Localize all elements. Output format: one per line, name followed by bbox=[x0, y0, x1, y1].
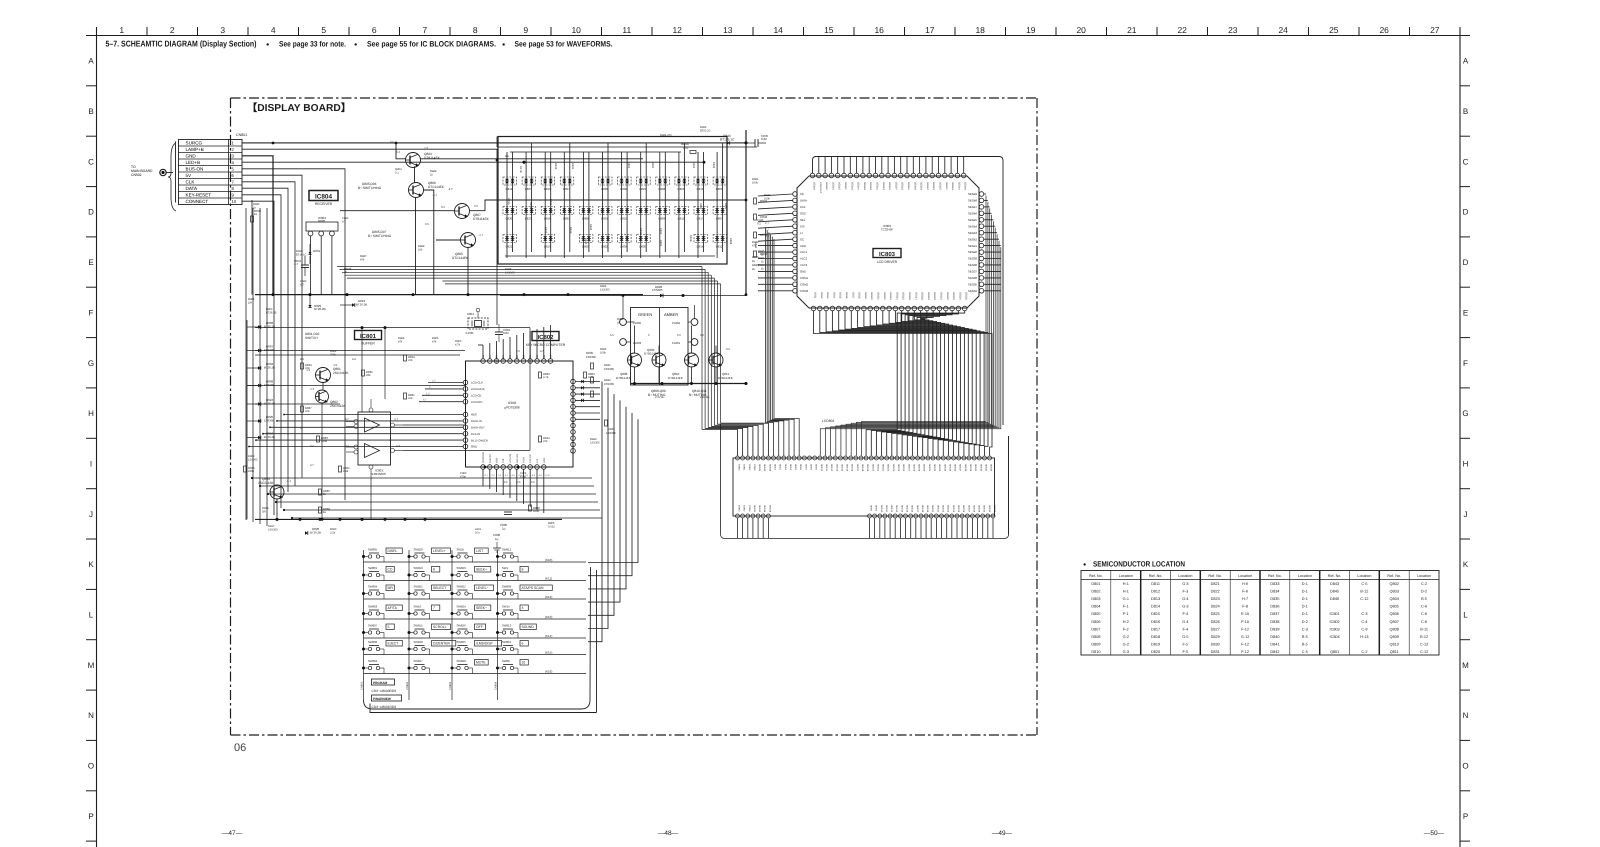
B+ switching annotation bbox=[358, 182, 382, 190]
svg-text:C-4: C-4 bbox=[1361, 620, 1367, 624]
svg-text:Q809: Q809 bbox=[1390, 635, 1399, 639]
svg-text:D802: D802 bbox=[1091, 590, 1100, 594]
svg-text:4.7: 4.7 bbox=[342, 221, 346, 224]
svg-text:SEG23: SEG23 bbox=[952, 292, 955, 300]
svg-text:4.3: 4.3 bbox=[310, 387, 315, 391]
svg-text:P: P bbox=[1463, 812, 1468, 821]
svg-text:SEG35: SEG35 bbox=[948, 464, 951, 472]
svg-text:SEG3: SEG3 bbox=[826, 292, 829, 299]
svg-text:5.1: 5.1 bbox=[395, 172, 399, 175]
svg-text:DTB114EK: DTB114EK bbox=[616, 376, 631, 380]
svg-text:SEG45: SEG45 bbox=[763, 505, 766, 513]
svg-text:SEG41: SEG41 bbox=[758, 464, 761, 472]
svg-text:SEG11: SEG11 bbox=[877, 292, 880, 300]
svg-text:SEG23: SEG23 bbox=[947, 505, 950, 513]
svg-text:OFF: OFF bbox=[476, 625, 483, 629]
switch SW802 bbox=[364, 659, 384, 670]
svg-text:SEG22: SEG22 bbox=[946, 292, 949, 300]
svg-text:Q810: Q810 bbox=[1390, 642, 1399, 646]
svg-text:【DISPLAY BOARD】: 【DISPLAY BOARD】 bbox=[247, 102, 351, 114]
svg-text:D815: D815 bbox=[1151, 612, 1160, 616]
svg-text:3.7: 3.7 bbox=[310, 464, 314, 467]
svg-text:G-2: G-2 bbox=[1123, 642, 1129, 646]
IC802 right diode column bbox=[576, 351, 617, 435]
svg-text:SW822: SW822 bbox=[457, 585, 467, 589]
svg-text:SW812: SW812 bbox=[502, 548, 512, 552]
svg-text:F-5: F-5 bbox=[1183, 650, 1189, 654]
svg-text:R808: R808 bbox=[729, 238, 732, 245]
svg-text:0.5: 0.5 bbox=[390, 141, 394, 144]
lamp wiring bbox=[623, 296, 716, 384]
svg-text:IC804: IC804 bbox=[1330, 635, 1340, 639]
svg-text:SEEK−: SEEK− bbox=[476, 606, 487, 610]
svg-text:S/S: S/S bbox=[800, 224, 805, 228]
key scan row wire K13 bbox=[364, 614, 587, 620]
svg-text:SEG16: SEG16 bbox=[911, 505, 914, 513]
svg-text:C-6: C-6 bbox=[1421, 612, 1427, 616]
IC803 bottom pins bbox=[811, 306, 967, 311]
svg-text:●: ● bbox=[266, 42, 269, 48]
svg-text:SEG14: SEG14 bbox=[900, 505, 903, 513]
IC802 top pins bbox=[481, 354, 553, 363]
svg-text:D: D bbox=[1463, 208, 1469, 217]
svg-text:SW16: SW16 bbox=[414, 605, 422, 609]
svg-text:SEG32: SEG32 bbox=[993, 505, 996, 513]
svg-text:VSS: VSS bbox=[516, 355, 519, 360]
IC803 right pin stubs bbox=[984, 194, 1001, 291]
svg-text:D805: D805 bbox=[716, 187, 723, 191]
svg-text:SEG4D: SEG4D bbox=[882, 182, 885, 190]
svg-text:D827: D827 bbox=[563, 187, 570, 191]
svg-text:J: J bbox=[89, 510, 93, 519]
svg-text:—49—: —49— bbox=[992, 830, 1013, 837]
svg-text:D845: D845 bbox=[1330, 590, 1339, 594]
svg-text:SEG35: SEG35 bbox=[968, 283, 977, 287]
svg-text:(K12): (K12) bbox=[545, 595, 552, 599]
svg-text:SEG19: SEG19 bbox=[927, 292, 930, 300]
svg-text:C: C bbox=[88, 157, 94, 166]
switch SW825 (ILMS/DISP) bbox=[453, 640, 502, 651]
svg-text:SEG41: SEG41 bbox=[968, 244, 977, 248]
svg-text:R81B: R81B bbox=[689, 235, 692, 242]
svg-text:D841: D841 bbox=[1270, 642, 1279, 646]
svg-text:D813: D813 bbox=[1151, 597, 1160, 601]
svg-text:SEG4H: SEG4H bbox=[957, 182, 960, 190]
svg-text:10u: 10u bbox=[475, 532, 480, 535]
svg-text:R816: R816 bbox=[544, 227, 547, 234]
svg-text:D824: D824 bbox=[1211, 605, 1220, 609]
svg-text:PRGRAM: PRGRAM bbox=[373, 681, 388, 685]
switch SW823 (SEEK+) bbox=[453, 566, 491, 577]
svg-text:R813: R813 bbox=[549, 199, 552, 206]
svg-text:CLK-IN: CLK-IN bbox=[471, 432, 480, 436]
svg-text:2SC2412K: 2SC2412K bbox=[330, 404, 346, 408]
LED pair D807 row 1 bbox=[522, 177, 536, 191]
display board boundary bbox=[231, 98, 1038, 735]
svg-text:CN802: CN802 bbox=[406, 681, 409, 690]
svg-text:R802: R802 bbox=[651, 162, 654, 169]
transistor Q810 bbox=[668, 353, 699, 380]
svg-text:47k: 47k bbox=[432, 341, 437, 344]
svg-text:SEG20: SEG20 bbox=[931, 505, 934, 513]
svg-text:2: 2 bbox=[170, 25, 175, 35]
svg-text:D816: D816 bbox=[1151, 620, 1160, 624]
svg-text:L: L bbox=[1463, 611, 1468, 620]
svg-text:1SS305: 1SS305 bbox=[604, 382, 614, 386]
svg-text:SEG34: SEG34 bbox=[968, 289, 977, 293]
svg-text:2SC2412K: 2SC2412K bbox=[333, 371, 349, 375]
svg-text:SEEK+: SEEK+ bbox=[476, 568, 487, 572]
D844 diode bbox=[720, 134, 735, 145]
svg-text:10: 10 bbox=[522, 661, 526, 665]
svg-text:100k: 100k bbox=[600, 352, 606, 355]
svg-text:B-5: B-5 bbox=[1302, 642, 1308, 646]
svg-text:COLOR: COLOR bbox=[529, 454, 532, 463]
IC803 bottom pin labels bbox=[814, 292, 968, 300]
svg-text:SEG4E: SEG4E bbox=[888, 182, 891, 190]
svg-text:47k: 47k bbox=[543, 439, 548, 443]
title text bbox=[106, 39, 613, 49]
svg-text:Ref. No.: Ref. No. bbox=[1387, 574, 1401, 578]
svg-text:SEG7: SEG7 bbox=[804, 464, 807, 471]
svg-text:06: 06 bbox=[234, 742, 246, 754]
svg-text:G-3: G-3 bbox=[1123, 650, 1129, 654]
svg-text:Q807: Q807 bbox=[1390, 620, 1399, 624]
svg-text:LCD-CE: LCD-CE bbox=[471, 394, 482, 398]
svg-text:D830: D830 bbox=[639, 245, 646, 249]
LED pair D808 row 1 bbox=[656, 177, 670, 191]
svg-text:SEG19: SEG19 bbox=[866, 464, 869, 472]
svg-text:SEG4G: SEG4G bbox=[850, 182, 853, 190]
svg-text:CLK: CLK bbox=[800, 205, 806, 209]
svg-text:-0.1: -0.1 bbox=[503, 481, 508, 484]
svg-text:1SS305: 1SS305 bbox=[604, 367, 614, 371]
svg-text:SEG12: SEG12 bbox=[883, 292, 886, 300]
svg-text:LEVEL+: LEVEL+ bbox=[433, 549, 446, 553]
svg-text:D834: D834 bbox=[1270, 590, 1279, 594]
svg-text:D831: D831 bbox=[1211, 650, 1220, 654]
svg-text:SEG21: SEG21 bbox=[940, 292, 943, 300]
svg-text:SEG2: SEG2 bbox=[820, 292, 823, 299]
svg-text:E: E bbox=[88, 258, 93, 267]
svg-text:H-1: H-1 bbox=[1123, 582, 1129, 586]
svg-text:SEG37: SEG37 bbox=[968, 270, 977, 274]
svg-text:SEG10: SEG10 bbox=[870, 292, 873, 300]
svg-text:SEG4E: SEG4E bbox=[838, 182, 841, 190]
svg-text:B+ SWITCHING: B+ SWITCHING bbox=[358, 186, 382, 190]
svg-text:0.5: 0.5 bbox=[425, 223, 429, 226]
svg-text:GND: GND bbox=[543, 457, 546, 463]
svg-text:D831: D831 bbox=[563, 217, 570, 221]
transistor Q809 bbox=[644, 348, 666, 367]
svg-text:DATA-OUT: DATA-OUT bbox=[471, 426, 485, 430]
switch SW821 (SELECT) bbox=[410, 585, 451, 596]
svg-text:Q804: Q804 bbox=[1390, 597, 1399, 601]
svg-text:SEL: SEL bbox=[800, 218, 806, 222]
IC803 top pins bbox=[810, 173, 966, 178]
svg-text:SEG45: SEG45 bbox=[768, 464, 771, 472]
svg-text:B: B bbox=[1463, 107, 1468, 116]
svg-text:SEG24: SEG24 bbox=[958, 292, 961, 300]
svg-text:4.7k: 4.7k bbox=[455, 344, 461, 347]
left section wires bbox=[247, 326, 562, 521]
svg-text:47k: 47k bbox=[752, 245, 757, 248]
svg-text:D819: D819 bbox=[1151, 642, 1160, 646]
svg-text:MR: MR bbox=[388, 586, 394, 590]
svg-text:D806: D806 bbox=[1091, 620, 1100, 624]
svg-text:4.7: 4.7 bbox=[394, 417, 399, 421]
svg-text:5–7. SCHEAMTIC DIAGRAM (Displa: 5–7. SCHEAMTIC DIAGRAM (Display Section) bbox=[106, 39, 257, 49]
key scan row wire K12 bbox=[364, 594, 587, 600]
svg-text:SW802: SW802 bbox=[368, 659, 378, 663]
svg-text:Ref. No.: Ref. No. bbox=[1149, 574, 1163, 578]
svg-text:SEG7: SEG7 bbox=[851, 292, 854, 299]
svg-text:SEG4: SEG4 bbox=[832, 292, 835, 299]
svg-text:D818: D818 bbox=[544, 217, 551, 221]
svg-text:SEG4E: SEG4E bbox=[939, 182, 942, 190]
switch matrix column verticals bbox=[361, 550, 500, 700]
svg-text:1SS305: 1SS305 bbox=[268, 529, 278, 532]
svg-text:See page 53 for WAVEFORMS.: See page 53 for WAVEFORMS. bbox=[515, 40, 613, 49]
svg-text:SEG40: SEG40 bbox=[968, 250, 977, 254]
to main board CN502 annotation bbox=[131, 143, 176, 211]
svg-text:SW826: SW826 bbox=[457, 624, 467, 628]
svg-text:-0.10: -0.10 bbox=[545, 474, 551, 477]
svg-text:D808: D808 bbox=[582, 217, 589, 221]
switch SW819 (8) bbox=[410, 566, 440, 577]
svg-text:D804: D804 bbox=[620, 187, 627, 191]
svg-text:SCROLL: SCROLL bbox=[433, 625, 447, 629]
svg-text:SEG15: SEG15 bbox=[906, 505, 909, 513]
svg-text:I: I bbox=[90, 460, 92, 469]
IC802 right-side drops bbox=[588, 382, 638, 642]
svg-text:Q805: Q805 bbox=[1390, 605, 1399, 609]
svg-text:ILMS/DISP: ILMS/DISP bbox=[476, 642, 494, 646]
svg-text:F-4: F-4 bbox=[1183, 612, 1189, 616]
svg-text:SEG8: SEG8 bbox=[810, 464, 813, 471]
LED pair D830 row 2 bbox=[503, 207, 517, 221]
svg-text:Ref. No.: Ref. No. bbox=[1268, 574, 1282, 578]
svg-text:SW825: SW825 bbox=[457, 640, 467, 644]
svg-text:SEG2: SEG2 bbox=[779, 464, 782, 471]
svg-text:SOUND: SOUND bbox=[522, 625, 535, 629]
svg-text:BT26.2B: BT26.2B bbox=[310, 531, 321, 535]
svg-text:2.9V B+: 2.9V B+ bbox=[700, 396, 710, 399]
svg-text:SW819: SW819 bbox=[414, 566, 424, 570]
svg-text:1SS305: 1SS305 bbox=[264, 419, 274, 423]
svg-text:SEG14: SEG14 bbox=[895, 292, 898, 300]
svg-text:C-9: C-9 bbox=[1361, 627, 1367, 631]
svg-text:SEG22: SEG22 bbox=[942, 505, 945, 513]
svg-text:SELECT: SELECT bbox=[433, 586, 446, 590]
svg-text:23: 23 bbox=[1228, 25, 1238, 35]
LED pair D813 row 3 bbox=[541, 235, 555, 249]
svg-text:D804: D804 bbox=[658, 217, 665, 221]
svg-text:—48—: —48— bbox=[658, 830, 679, 837]
svg-text:C-6: C-6 bbox=[1421, 620, 1427, 624]
wires around Q804-Q807 bbox=[340, 142, 746, 295]
svg-text:KEY-RESET: KEY-RESET bbox=[186, 193, 212, 198]
svg-text:Q808: Q808 bbox=[1390, 627, 1399, 631]
svg-text:COM2: COM2 bbox=[743, 505, 746, 512]
LED pair D818 row 2 bbox=[541, 207, 555, 221]
svg-text:SEG43: SEG43 bbox=[763, 464, 766, 472]
svg-text:SEG4A: SEG4A bbox=[913, 182, 916, 190]
svg-text:9: 9 bbox=[522, 568, 524, 572]
svg-text:●: ● bbox=[1083, 562, 1086, 568]
svg-text:CN804: CN804 bbox=[495, 681, 498, 690]
switch SW25 (LIST) bbox=[453, 548, 489, 559]
svg-text:27: 27 bbox=[1430, 25, 1440, 35]
svg-text:-4.7: -4.7 bbox=[448, 188, 453, 191]
svg-text:C: C bbox=[1463, 157, 1469, 166]
svg-text:SEG09: SEG09 bbox=[768, 505, 771, 513]
svg-text:SEG42: SEG42 bbox=[968, 237, 977, 241]
svg-text:L: L bbox=[89, 611, 94, 620]
switch SW813 (SOUND) bbox=[498, 624, 536, 635]
svg-text:D809: D809 bbox=[1091, 642, 1100, 646]
svg-text:K: K bbox=[1463, 560, 1469, 569]
svg-text:CONNECT: CONNECT bbox=[186, 199, 209, 204]
svg-text:F-10: F-10 bbox=[1241, 620, 1249, 624]
IC803 bottom fan wires bbox=[814, 311, 993, 456]
LED matrix resistor labels bbox=[507, 162, 757, 249]
transistor Q811 bbox=[709, 353, 733, 380]
svg-text:7: 7 bbox=[433, 606, 435, 610]
svg-text:SEG37: SEG37 bbox=[959, 464, 962, 472]
svg-text:B-12: B-12 bbox=[1360, 590, 1368, 594]
switch SW804 (MR) bbox=[364, 585, 394, 596]
svg-text:IC803: IC803 bbox=[879, 251, 896, 258]
svg-text:LCD-INH: LCD-INH bbox=[471, 400, 482, 404]
svg-text:SW806: SW806 bbox=[368, 640, 378, 644]
svg-text:100k: 100k bbox=[752, 182, 758, 185]
svg-text:5/6: 5/6 bbox=[262, 511, 266, 514]
svg-text:SEG45: SEG45 bbox=[968, 218, 977, 222]
svg-text:IC802: IC802 bbox=[1330, 620, 1340, 624]
svg-text:1SS305: 1SS305 bbox=[586, 355, 596, 359]
svg-text:SEG4C: SEG4C bbox=[926, 182, 929, 190]
svg-text:0.022: 0.022 bbox=[548, 526, 555, 529]
svg-text:4.19M: 4.19M bbox=[465, 331, 474, 335]
LCD801 bottom pins left group bbox=[736, 505, 772, 518]
svg-text:MONITOR: MONITOR bbox=[482, 451, 485, 463]
transistor Q803 bbox=[258, 477, 292, 499]
svg-text:SEG4: SEG4 bbox=[789, 464, 792, 471]
svg-text:SEG4F: SEG4F bbox=[945, 182, 948, 190]
LCD801 top pins bbox=[736, 456, 992, 460]
svg-text:R81A: R81A bbox=[507, 198, 510, 205]
IC802 left pins bbox=[463, 380, 488, 449]
svg-text:—50—: —50— bbox=[1424, 830, 1445, 837]
svg-text:R811: R811 bbox=[724, 203, 727, 210]
svg-text:P01: P01 bbox=[529, 354, 532, 359]
svg-text:COM0: COM0 bbox=[738, 464, 741, 471]
svg-text:SEG28: SEG28 bbox=[912, 464, 915, 472]
svg-text:BT26.2B: BT26.2B bbox=[264, 435, 275, 439]
svg-text:KEY-ON: KEY-ON bbox=[516, 454, 519, 463]
svg-text:5: 5 bbox=[321, 25, 326, 35]
svg-text:A: A bbox=[88, 57, 94, 66]
svg-text:●: ● bbox=[354, 42, 357, 48]
svg-text:SEG11: SEG11 bbox=[825, 464, 828, 472]
transistor Q807 bbox=[441, 204, 490, 222]
C801 capacitor bbox=[495, 324, 511, 342]
svg-text:PWARNIEW: PWARNIEW bbox=[373, 697, 391, 701]
svg-text:Location: Location bbox=[1238, 574, 1252, 578]
svg-text:SEG33: SEG33 bbox=[938, 464, 941, 472]
svg-text:LCD-DATA: LCD-DATA bbox=[471, 387, 485, 391]
svg-text:PL804: PL804 bbox=[672, 321, 681, 325]
page number 48 bbox=[658, 830, 679, 837]
svg-text:1SS305: 1SS305 bbox=[600, 289, 610, 292]
svg-text:D805: D805 bbox=[582, 245, 589, 249]
LCD801 top-left fan wires bbox=[702, 228, 799, 456]
svg-text:B-11: B-11 bbox=[1420, 627, 1428, 631]
LED pair D815 row 1 bbox=[503, 177, 517, 191]
svg-text:N: N bbox=[1463, 711, 1469, 720]
svg-text:5.5: 5.5 bbox=[610, 334, 614, 337]
svg-text:F-1: F-1 bbox=[1123, 612, 1129, 616]
svg-text:SEG36: SEG36 bbox=[968, 276, 977, 280]
svg-text:D826: D826 bbox=[1211, 620, 1220, 624]
svg-text:SEG5: SEG5 bbox=[794, 464, 797, 471]
svg-text:F-2: F-2 bbox=[1123, 627, 1129, 631]
svg-text:F: F bbox=[89, 308, 94, 317]
svg-text:F-12: F-12 bbox=[1241, 650, 1249, 654]
svg-text:G-3: G-3 bbox=[1182, 582, 1188, 586]
svg-text:47k: 47k bbox=[408, 358, 413, 362]
svg-text:D842: D842 bbox=[1270, 650, 1279, 654]
svg-text:11: 11 bbox=[622, 25, 631, 35]
svg-text:(K15): (K15) bbox=[545, 651, 552, 655]
svg-text:SEG44: SEG44 bbox=[968, 224, 977, 228]
svg-text:D817: D817 bbox=[697, 217, 704, 221]
svg-text:SEG27: SEG27 bbox=[967, 505, 970, 513]
svg-text:470p: 470p bbox=[460, 476, 466, 479]
svg-text:SEG4D: SEG4D bbox=[831, 182, 834, 190]
svg-text:21: 21 bbox=[1127, 25, 1137, 35]
switch SW801 (CD) bbox=[364, 566, 394, 577]
svg-text:16: 16 bbox=[874, 25, 884, 35]
svg-text:1μ: 1μ bbox=[495, 537, 499, 541]
svg-text:SEG23: SEG23 bbox=[887, 464, 890, 472]
svg-text:2.2k: 2.2k bbox=[343, 469, 349, 473]
svg-text:B-5: B-5 bbox=[1421, 597, 1427, 601]
svg-text:Location: Location bbox=[1298, 574, 1312, 578]
svg-text:H-1: H-1 bbox=[1123, 590, 1129, 594]
svg-text:COM-OUT: COM-OUT bbox=[819, 182, 822, 194]
svg-text:BT26.2B: BT26.2B bbox=[266, 312, 277, 315]
svg-text:SW805: SW805 bbox=[368, 548, 378, 552]
top rail wires bbox=[242, 137, 757, 148]
svg-text:See page 55 for IC BLOCK DIAGR: See page 55 for IC BLOCK DIAGRAMS. bbox=[367, 40, 496, 49]
svg-text:D801: D801 bbox=[1091, 582, 1100, 586]
svg-text:SEG39: SEG39 bbox=[969, 464, 972, 472]
svg-text:SW821: SW821 bbox=[414, 585, 424, 589]
svg-text:R801: R801 bbox=[627, 162, 630, 169]
svg-text:SEG25: SEG25 bbox=[897, 464, 900, 472]
key scan row wire K16 bbox=[364, 668, 587, 674]
svg-text:Q801: Q801 bbox=[1330, 650, 1339, 654]
lamp PL803 bbox=[620, 339, 642, 346]
svg-text:GND: GND bbox=[800, 270, 806, 274]
svg-text:-4.7: -4.7 bbox=[432, 193, 438, 197]
svg-text:4.3: 4.3 bbox=[300, 358, 304, 361]
svg-text:LEVEL−: LEVEL− bbox=[476, 586, 489, 590]
svg-text:SEG13: SEG13 bbox=[835, 464, 838, 472]
svg-text:-0.2: -0.2 bbox=[530, 481, 535, 484]
